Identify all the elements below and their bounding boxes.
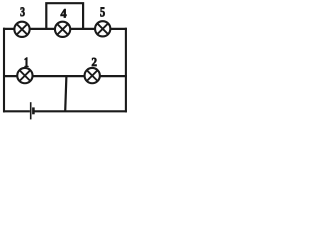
battery cell B1 bbox=[31, 102, 34, 119]
lamp 1 bbox=[17, 68, 32, 83]
lamp 2 bbox=[85, 68, 100, 83]
wire top horizontal bbox=[3, 28, 127, 30]
lamp 5 bbox=[95, 21, 110, 36]
wire short-circuit loop around lamp 4 bbox=[46, 3, 83, 29]
label 2 bbox=[92, 58, 97, 66]
wire junction vertical (middle to bottom) bbox=[65, 76, 66, 111]
wire bottom horizontal right of battery bbox=[34, 110, 127, 112]
wire right vertical bbox=[125, 28, 127, 113]
lamp 4 bbox=[55, 22, 70, 37]
wire middle horizontal bbox=[3, 75, 127, 77]
label 4 bbox=[61, 9, 67, 17]
label 3 bbox=[21, 7, 25, 16]
wire bottom horizontal left of battery bbox=[3, 110, 30, 112]
wire left vertical bbox=[3, 28, 5, 113]
label 1 bbox=[25, 58, 29, 67]
lamp 3 bbox=[14, 22, 29, 37]
label 5 bbox=[100, 7, 104, 16]
